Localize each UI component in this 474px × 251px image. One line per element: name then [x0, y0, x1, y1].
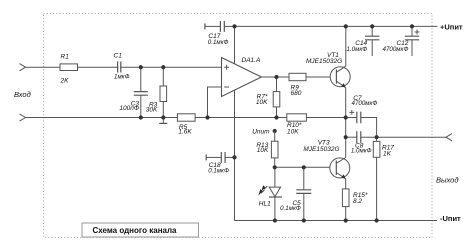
wire op-amp output: [262, 76, 290, 78]
capacitor C8: [346, 131, 377, 154]
wire top signal: [26, 66, 222, 68]
capacitor C12: [383, 26, 420, 56]
svg-text:MJE15032G: MJE15032G: [303, 146, 339, 153]
svg-text:1.0мкФ: 1.0мкФ: [351, 147, 372, 154]
svg-text:Схема одного канала: Схема одного канала: [92, 226, 177, 235]
svg-text:MJE15032G: MJE15032G: [306, 58, 342, 65]
capacitor C14: [347, 26, 380, 56]
wire VT3 emitter: [345, 179, 347, 189]
capacitor C1: [114, 53, 130, 81]
svg-text:HL1: HL1: [259, 201, 271, 208]
svg-text:2K: 2K: [60, 78, 70, 85]
resistor R15*: [342, 189, 368, 221]
resistor R9: [289, 73, 336, 97]
capacitor C5: [280, 167, 311, 220]
svg-text:Вход: Вход: [14, 90, 31, 99]
top supply rail: [235, 25, 438, 27]
op-amp positive supply pin: [234, 26, 236, 64]
resistor R1: [60, 54, 78, 85]
svg-text:0.1мкФ: 0.1мкФ: [280, 205, 301, 212]
svg-text:0.1мкФ: 0.1мкФ: [208, 39, 229, 46]
svg-text:C1: C1: [114, 53, 123, 60]
svg-text:Uпит: Uпит: [252, 129, 270, 136]
resistor R7*: [256, 77, 280, 118]
output wire: [377, 136, 446, 138]
resistor R3: [146, 67, 167, 117]
transistor VT1: [306, 52, 350, 88]
svg-text:1мкФ: 1мкФ: [114, 74, 130, 81]
input terminal bottom: [20, 114, 26, 121]
svg-text:Выход: Выход: [436, 176, 459, 185]
caption box Схема одного канала: [82, 223, 199, 237]
capacitor C17: [205, 21, 235, 46]
svg-text:4700мкФ: 4700мкФ: [383, 46, 409, 53]
svg-text:680: 680: [291, 90, 302, 97]
svg-text:1.0мкФ: 1.0мкФ: [347, 46, 368, 53]
wire bottom signal right: [306, 117, 345, 119]
resistor R10*: [287, 114, 307, 136]
bottom supply rail: [235, 220, 438, 222]
svg-text:10K: 10K: [287, 128, 299, 135]
resistor R13: [256, 131, 278, 167]
svg-text:10K: 10K: [257, 147, 269, 154]
capacitor C3: [119, 67, 147, 117]
op-amp negative supply pin going to bottom rail: [234, 90, 236, 220]
svg-text:DA1.A: DA1.A: [242, 57, 261, 64]
wire bottom signal mid: [195, 117, 287, 119]
capacitor C18: [206, 152, 234, 175]
input terminal top: [20, 64, 26, 71]
label Uпит with terminal dot: [252, 129, 277, 136]
output terminal: [446, 134, 452, 141]
wire VT1 emitter / VT3 collector (output node): [345, 88, 347, 158]
svg-text:4700мкФ: 4700мкФ: [352, 100, 378, 107]
svg-text:100пФ: 100пФ: [119, 105, 139, 112]
capacitor C7: [346, 95, 378, 137]
resistor R5: [177, 114, 195, 136]
svg-text:1.6K: 1.6K: [178, 129, 192, 136]
svg-text:30K: 30K: [146, 107, 158, 114]
transistor VT3: [303, 140, 349, 179]
svg-text:8.2: 8.2: [353, 198, 362, 205]
wire bottom signal left: [26, 117, 178, 119]
svg-text:R1: R1: [61, 54, 70, 61]
svg-text:0.1мкФ: 0.1мкФ: [208, 168, 229, 175]
open terminal below R3 node: [159, 118, 167, 124]
wire VT3 base: [275, 166, 337, 168]
svg-text:-Uпит: -Uпит: [440, 214, 461, 223]
node dots: [139, 65, 143, 69]
LED HL1: [258, 167, 282, 220]
wire feedback to inverting input: [208, 87, 222, 118]
svg-text:+Uпит: +Uпит: [440, 23, 463, 32]
svg-text:10K: 10K: [256, 99, 268, 106]
dashed enclosure border: [44, 14, 433, 238]
svg-text:1K: 1K: [383, 150, 392, 157]
wire VT1 collector: [345, 26, 347, 66]
resistor R17: [373, 137, 394, 220]
op-amp DA1.A: [222, 57, 262, 97]
